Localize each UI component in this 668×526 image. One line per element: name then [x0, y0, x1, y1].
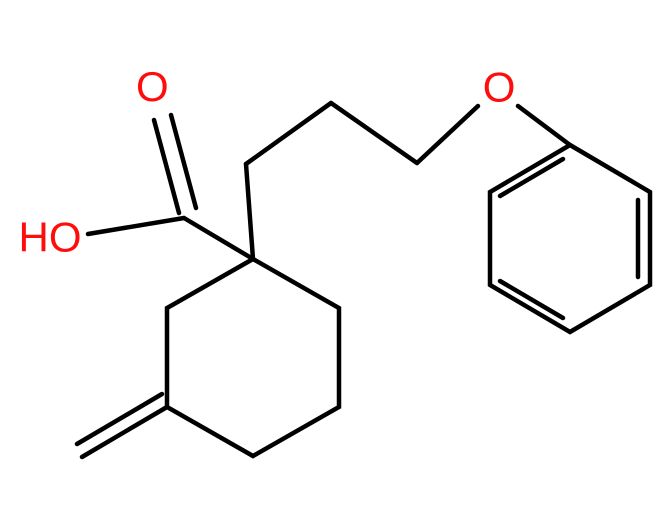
exocyclic methylene double bond [77, 394, 167, 457]
bond Ca-V1 [184, 218, 253, 259]
svg-text:O: O [136, 63, 169, 110]
svg-text:HO: HO [19, 213, 82, 260]
bond C-O3 [417, 106, 478, 163]
svg-text:O: O [483, 63, 516, 110]
right benzene ring [490, 145, 650, 332]
bond V1-A vertical [246, 164, 253, 259]
right ring inner aromatic lines [500, 159, 638, 318]
bond A-apex [246, 103, 331, 164]
bond O3-ring [518, 106, 570, 145]
C=O double bond [154, 115, 196, 213]
HO-C bond [88, 218, 184, 234]
center ring [167, 259, 339, 456]
bond apex-C [331, 103, 417, 163]
